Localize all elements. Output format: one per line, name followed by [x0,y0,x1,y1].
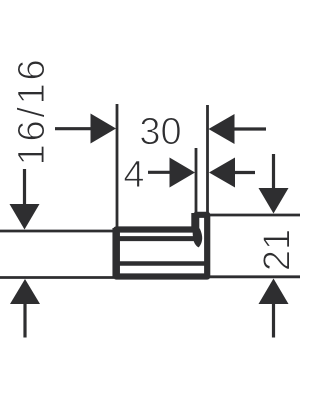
extension line D (profile top, to left margin) [0,230,114,233]
arrow 21-bottom (points up at line G) [259,279,289,305]
arrow 4-right (points left at line B) [209,158,235,188]
profile left wall thickening [112,228,120,278]
leader tail of 21 dim top arrow [272,154,275,189]
extension line E (profile bottom, to left margin) [0,276,114,279]
leader tail of 16/16 dim top arrow [23,169,26,204]
leader tail of 16/16 dim bottom arrow [23,303,26,338]
arrow 21-top (points down at line F) [259,188,289,214]
arrow 30-left (points right at line A) [91,114,117,144]
svg-text:30: 30 [139,111,181,153]
svg-text:16/16: 16/16 [11,57,53,166]
extension line G (profile bottom, to right margin) [209,275,300,278]
arrow 16/16-bottom (points up at line E) [10,279,40,304]
svg-text:4: 4 [123,154,144,196]
profile tab leg thickening [191,213,198,230]
extension line A (left edge of 30 dim) [116,104,119,229]
leader tail of 21 dim bottom arrow [272,303,275,338]
leader tail of 30 dim right arrow [233,127,266,130]
arrow 4-left (points right at line C) [170,158,196,188]
arrow 16/16-top (points down at line D) [10,204,40,230]
extension line B (right edge of 30/4 dims) [206,105,209,214]
arrow 30-right (points left at line B) [209,114,235,144]
leader tail of 4 dim right arrow [233,171,255,174]
svg-text:21: 21 [257,229,299,271]
profile hook at shelf end [193,229,203,248]
profile lower shelf [118,261,206,266]
extension line F (tab top, to right margin) [209,214,300,217]
profile inner shelf [118,236,195,241]
profile outline (wall bar cross-section) [116,215,207,277]
leader tail of 4 dim left arrow [148,171,171,174]
extension line C (left edge of 4 dim) [195,148,198,215]
leader tail of 30 dim left arrow [55,127,92,130]
